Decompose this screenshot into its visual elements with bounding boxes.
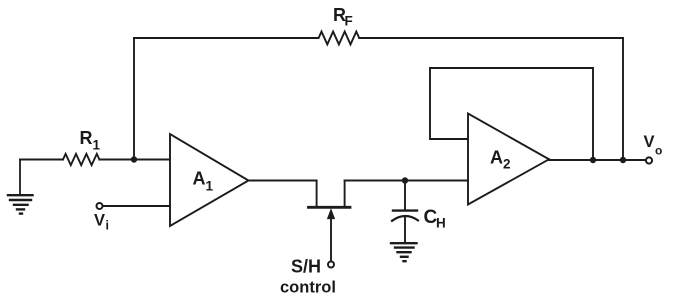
label CH [424,207,446,231]
svg-text:V: V [94,212,105,230]
label RF [333,5,353,29]
wire RF right segment [359,37,623,39]
ground (left) [8,160,33,214]
transistor Q1 gate lead from S/H control [330,218,332,262]
svg-text:2: 2 [503,157,511,172]
node R1/A1 input junction dot [131,156,137,162]
wire A2 feedback loop [430,68,593,160]
transistor Q1 gate arrowhead [328,210,335,219]
capacitor CH bottom lead [404,218,406,243]
op-amp A1 [170,134,249,226]
wire feedback top-left vertical (node A to RF) [133,38,135,160]
wire switch to A2 noninverting input [345,180,468,182]
capacitor CH top plate [393,209,417,211]
capacitor CH curved plate [392,216,418,221]
svg-text:F: F [345,14,353,29]
svg-text:o: o [655,144,662,158]
svg-text:S/H: S/H [291,256,321,276]
terminal Vo [646,157,652,163]
label A1 [193,169,214,194]
svg-text:A: A [193,169,206,189]
svg-text:R: R [80,128,93,148]
svg-text:i: i [106,219,109,233]
wire R1 to A1 inverting input [99,159,170,161]
op-amp A2 [468,114,549,205]
transistor Q1 (S/H switch JFET) channel bar [309,206,351,209]
svg-text:V: V [644,133,655,151]
resistor R1 [63,154,99,165]
node A2 feedback junction dot [590,157,596,163]
svg-text:1: 1 [206,179,214,194]
wire Vi to A1 noninverting input [103,205,170,207]
label R1 [80,128,101,153]
svg-text:H: H [436,216,446,231]
wire RF left segment [134,37,318,39]
label Vi [94,212,109,233]
label A2 [490,148,511,172]
capacitor CH top lead [404,181,406,210]
svg-text:1: 1 [93,138,101,153]
node RF junction dot [620,157,626,163]
ground (under CH) [391,243,417,261]
node capacitor tap junction dot [402,177,408,183]
terminal S/H control [328,262,334,268]
wire A2 output to Vo [549,158,646,161]
transistor Q1 right leg [344,181,346,207]
wire RF right vertical drop to output node [622,38,624,160]
wire A1 output to switch [249,181,317,206]
label Vo [644,133,663,158]
svg-text:A: A [490,148,503,168]
wire ground to R1 [20,159,63,161]
resistor RF [319,32,360,45]
terminal Vi [97,203,103,209]
svg-text:control: control [280,279,336,297]
label S/H control [280,256,336,296]
